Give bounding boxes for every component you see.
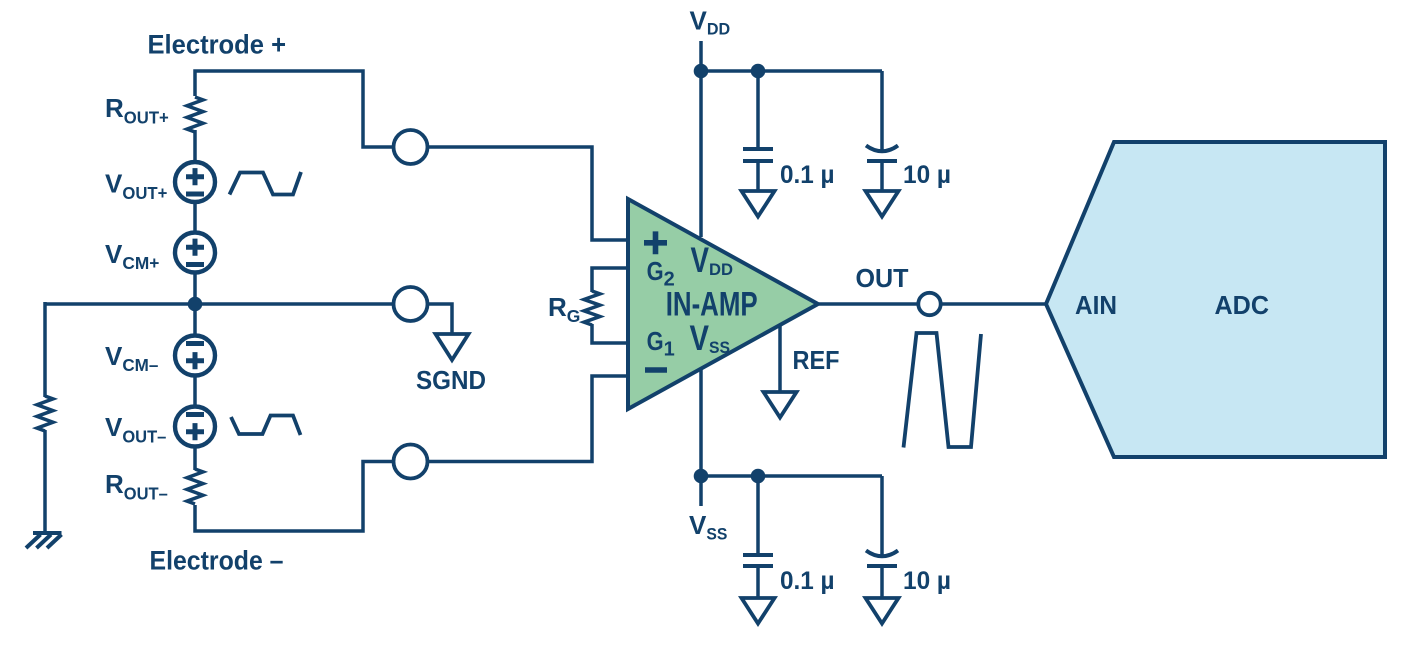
- svg-text:0.1 µ: 0.1 µ: [780, 567, 835, 595]
- svg-text:0.1 µ: 0.1 µ: [780, 161, 835, 189]
- svg-text:OUT: OUT: [856, 263, 909, 293]
- svg-text:Electrode +: Electrode +: [148, 30, 287, 60]
- svg-text:IN-AMP: IN-AMP: [666, 286, 758, 324]
- svg-text:10 µ: 10 µ: [903, 161, 951, 189]
- svg-text:10 µ: 10 µ: [903, 567, 951, 595]
- svg-text:REF: REF: [793, 345, 840, 375]
- svg-text:ADC: ADC: [1215, 290, 1270, 320]
- svg-text:AIN: AIN: [1075, 290, 1117, 320]
- svg-text:Electrode –: Electrode –: [150, 546, 284, 576]
- svg-text:SGND: SGND: [416, 365, 486, 395]
